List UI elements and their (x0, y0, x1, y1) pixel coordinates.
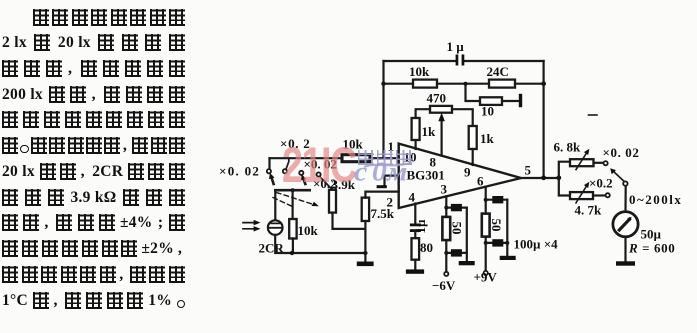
node: junction right vertical / R2 (541, 81, 546, 86)
wire: R4 wiper to op-amp pin 8 (441, 119, 443, 156)
wire: to C6 (486, 242, 508, 244)
resistor R9 3.9k (329, 190, 336, 213)
wire: R1 to R2 (437, 83, 489, 85)
wire: K2b to R9 (320, 177, 333, 190)
watermark dianziwang (358, 150, 416, 170)
watermark 21IC (282, 136, 356, 194)
svg-text:8: 8 (430, 155, 437, 170)
watermark com script (354, 157, 412, 188)
resistor R5 1k (left) (412, 118, 420, 140)
terminal: -6V (444, 272, 448, 276)
wire: R4 right arm to R6 (452, 109, 473, 126)
wire: meter to ground (624, 237, 626, 261)
linkage dashed line (switch gang) (277, 193, 315, 205)
resistor R2 24C (240) (489, 80, 515, 88)
svg-text:5: 5 (525, 163, 532, 178)
ground: meter ground (616, 261, 635, 265)
capacitor C4 100u (451, 249, 462, 256)
svg-text:×0. 02: ×0. 02 (304, 157, 337, 172)
ground: pin 4 chain ground (406, 269, 424, 273)
svg-text:×0. 2: ×0. 2 (280, 136, 310, 151)
resistor R10 7.5k (362, 198, 369, 221)
switch contact K2b (x0.2) (317, 172, 321, 176)
svg-text:24C: 24C (487, 64, 509, 79)
switch wiper arrow K2 (303, 179, 305, 185)
svg-text:100µ ×4: 100µ ×4 (514, 237, 559, 252)
wire: to C3 (446, 207, 467, 209)
resistor R7 10k input (342, 155, 370, 162)
svg-text:×0. 02: ×0. 02 (219, 164, 260, 179)
svg-text:80: 80 (420, 240, 433, 255)
node: bus to 10k load (291, 188, 295, 192)
node: bus/C6 junction (505, 241, 509, 245)
wire: K1b link up to signal line (286, 158, 289, 169)
wire: R6 to op-amp pin 9 (472, 149, 474, 165)
wire: up branch to R14 (559, 162, 570, 178)
resistor R8 10k (load) (289, 219, 296, 239)
wire: to C5 (486, 199, 508, 201)
svg-text:−6V: −6V (432, 278, 456, 293)
switch contact K1a (x0.02) (267, 169, 271, 173)
wire: bus down to 2CR (274, 190, 276, 220)
node: pin3/C4 junction (444, 251, 448, 255)
linkage dashed line 2 (273, 198, 295, 208)
node: tap junction between R1 and R2 (464, 82, 468, 86)
svg-text:×0.2: ×0.2 (589, 176, 613, 191)
resistor R11 80 (412, 238, 420, 260)
svg-text:1k: 1k (422, 124, 437, 139)
svg-text:10k: 10k (409, 64, 430, 79)
wire: right vertical of feedback loop down to output (542, 61, 544, 178)
node: feedback junction on output (541, 175, 546, 180)
wire: C5/C6 bus to ground (506, 200, 508, 256)
wire: R14 to contact (594, 162, 604, 164)
resistor R3 10 (480, 97, 502, 105)
svg-text:50: 50 (489, 219, 504, 232)
wire: output pin 5 (521, 177, 559, 179)
svg-text:6: 6 (477, 174, 484, 189)
svg-text:4. 7k: 4. 7k (575, 203, 603, 218)
ground: pin 6 bus ground (500, 256, 516, 260)
svg-text:4: 4 (409, 190, 416, 205)
wire: bend down to contact K1a (268, 158, 270, 169)
wire: R11 to ground (414, 260, 416, 270)
wire: R10 bottom to ground (364, 221, 366, 262)
ground: bar ground of R3 (519, 94, 522, 107)
wire: pin 3 down to -6V (445, 196, 447, 271)
wire: pin 4 down (414, 204, 416, 224)
svg-text:9: 9 (464, 165, 471, 180)
capacitor C3 100u (451, 204, 462, 211)
svg-text:470: 470 (427, 91, 447, 106)
photocell 2CR (268, 220, 283, 235)
svg-text:×0. 02: ×0. 02 (603, 145, 640, 160)
potentiometer R4 470 (430, 106, 452, 113)
wire: bus down to R8 (292, 190, 294, 219)
wire: R2 to right vertical (515, 83, 544, 85)
svg-text:R = 600: R = 600 (628, 241, 675, 256)
wire: to C4 (446, 252, 467, 254)
svg-text:3.9k: 3.9k (332, 177, 356, 192)
node: pin3/C3 junction (444, 206, 448, 210)
switch contact K3a (x0.02) (604, 161, 608, 165)
svg-text:+9V: +9V (474, 270, 498, 285)
wire: top feedback line to capacitor C1 (384, 60, 544, 62)
capacitor C1 1u (456, 55, 465, 66)
capacitor C6 100u (492, 239, 503, 246)
wire: R10 top to op-amp pin 2 (365, 192, 398, 198)
node: pin6/C5 junction (484, 198, 488, 202)
svg-text:BG301: BG301 (407, 168, 445, 183)
terminal: +9V (484, 271, 488, 275)
switch wiper pivot K3 (623, 181, 627, 185)
wire: R3 to ground (502, 100, 519, 102)
wire: segment to R1 (384, 83, 414, 85)
node: ground stem on bottom bus (363, 251, 367, 255)
light arrows into 2CR (243, 220, 261, 232)
potentiometer R15 4.7k (570, 192, 593, 199)
svg-text:1 µ: 1 µ (447, 39, 465, 54)
svg-text:1: 1 (388, 139, 395, 154)
capacitor C5 100u (492, 196, 503, 203)
wire: down branch to R15 (559, 178, 570, 196)
resistor R1 10k (feedback) (413, 80, 437, 88)
wire: R4 left arm to R5 (416, 109, 430, 118)
svg-text:1k: 1k (480, 131, 495, 146)
wire: left vertical of feedback loop down to input node (382, 61, 384, 158)
node: junction left vertical / R1 line (381, 82, 385, 86)
potentiometer R14 6.8k (570, 159, 594, 166)
wire: tap down to R3 (466, 84, 481, 101)
svg-text:3: 3 (441, 182, 448, 197)
switch wiper arrow K1 (272, 178, 274, 185)
resistor R12 50 (442, 217, 450, 240)
node: pin6/C6 junction (484, 241, 488, 245)
node: R8 on bottom bus (290, 251, 294, 255)
node: branch junction (556, 175, 561, 180)
switch contact K2a (x0.02) (299, 171, 303, 175)
capacitor C2 1u (pin 4) (410, 224, 421, 233)
wire: bottom bus to ground (275, 235, 365, 253)
wire: wiper down to meter (624, 186, 626, 212)
watermark wave over com (364, 163, 412, 168)
wire: R15 to contact (593, 194, 605, 196)
wire: R9 bottom to 7.5k leg (333, 213, 366, 229)
svg-text:6. 8k: 6. 8k (554, 140, 582, 155)
resistor R13 50 (482, 214, 490, 237)
svg-text:10k: 10k (343, 137, 364, 152)
svg-text:10: 10 (481, 104, 494, 119)
stray mark (589, 114, 598, 116)
svg-text:50: 50 (450, 222, 465, 235)
wire: R5 to op-amp pin 10 (415, 140, 417, 149)
switch contact K1b (x0.2) (283, 169, 287, 173)
wire: pin 6 down to +9V (485, 187, 487, 271)
ground: bottom bus ground (357, 262, 374, 267)
svg-text:0~200lx: 0~200lx (629, 192, 682, 207)
switch wiper K3 (613, 171, 625, 182)
wire: C2 to R11 (414, 232, 416, 238)
switch contact K3b (x0.2) (606, 193, 610, 197)
svg-text:50µ: 50µ (641, 227, 662, 242)
wire: C3/C4 bus to ground (466, 208, 468, 261)
ground: pin 3 bus ground (459, 261, 475, 265)
svg-text:10k: 10k (298, 223, 319, 238)
op-amp U1 BG301 (399, 144, 521, 208)
wire: wiper bus (275, 189, 309, 192)
meter M1 (613, 212, 638, 237)
wire: switch line to R7 and op-amp pin 1 input node (270, 157, 399, 159)
svg-text:2: 2 (387, 195, 394, 210)
resistor R6 1k (right) (469, 126, 477, 149)
ground: non-inverting input ground (377, 176, 399, 189)
